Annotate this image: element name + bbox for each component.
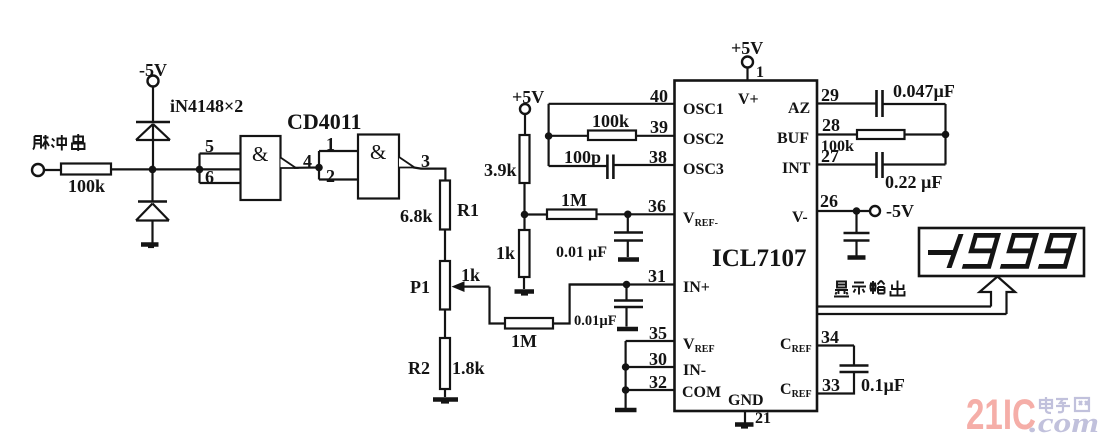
capacitor 0.01uF (pin31) [614, 285, 643, 327]
seven-seg digit 9 (third) [1038, 233, 1077, 269]
wire 100k to right rail [905, 133, 946, 135]
resistor 100k (osc) [588, 131, 636, 141]
svg-text:4: 4 [303, 151, 312, 171]
svg-text:5: 5 [205, 136, 214, 156]
resistor 100k (input) [61, 164, 111, 175]
svg-text:34: 34 [821, 327, 839, 347]
wire 100k to pin 39 OSC2 [636, 135, 675, 137]
svg-text:28: 28 [822, 115, 840, 135]
svg-text:29: 29 [821, 85, 839, 105]
wire 0.047uF to right rail [883, 103, 946, 105]
svg-text:OSC1: OSC1 [683, 101, 724, 118]
svg-text:1: 1 [326, 134, 335, 154]
wire resistor to gate input node [111, 168, 241, 170]
capacitor 0.01uF (pin36) [614, 214, 643, 257]
resistor R2 1.8k [440, 338, 450, 389]
display module frame [919, 228, 1084, 276]
svg-text:BUF: BUF [777, 130, 809, 147]
wire pin 29 AZ [817, 102, 876, 104]
ground below 0.01uF (pin31) [617, 327, 638, 332]
display output bus wire (lower) [817, 313, 1007, 315]
svg-text:0.22 µF: 0.22 µF [885, 172, 942, 192]
wire pin 1 [746, 68, 748, 81]
svg-text:V+: V+ [738, 91, 759, 108]
wire P1 to R2 [444, 310, 446, 339]
right rail vertical wire [944, 104, 946, 165]
svg-text:V-: V- [792, 209, 808, 226]
wire pin 32 [626, 389, 675, 391]
wire pin 26 V- [817, 210, 870, 212]
input terminal [32, 164, 44, 176]
svg-text:&: & [252, 142, 268, 166]
svg-text:1M: 1M [561, 190, 587, 210]
svg-text:ICL7107: ICL7107 [712, 245, 806, 272]
svg-text:0.1µF: 0.1µF [861, 375, 905, 395]
pin 21 wire [744, 411, 746, 423]
P1 wiper arrow [452, 281, 490, 292]
wire R2 to ground [444, 389, 446, 397]
junction pin30 [622, 363, 630, 371]
ground below pin 21 [735, 425, 754, 428]
svg-text:32: 32 [649, 372, 667, 392]
resistor 3.9k [520, 135, 530, 183]
ground below 0.01uF (pin36) [618, 257, 639, 262]
nand gate U1A (CD4011) [241, 136, 281, 200]
junction pin31/cap [623, 281, 631, 289]
diode D2 (1N4148) lower [136, 169, 169, 242]
wire node to 1k [523, 215, 525, 231]
svg-text:OSC2: OSC2 [683, 131, 724, 148]
wire 34 to 33 loop [817, 346, 854, 394]
svg-text:100k: 100k [68, 176, 105, 196]
display output bus wire (upper) [817, 305, 991, 307]
bracket wire pins 35/30/32 [624, 341, 626, 408]
svg-text:27: 27 [821, 146, 839, 166]
hollow arrow to display [980, 277, 1016, 315]
svg-text:21IC: 21IC [966, 391, 1036, 439]
resistor 100k (right) [857, 130, 905, 139]
U1A output inverter wedge [281, 158, 297, 169]
svg-text:0.01µF: 0.01µF [574, 313, 617, 329]
svg-text:P1: P1 [410, 277, 430, 297]
svg-text:.com: .com [1029, 407, 1099, 439]
svg-text:35: 35 [649, 323, 667, 343]
wire 1M to pin 31 line [553, 285, 627, 324]
junction right rail [942, 131, 950, 139]
svg-text:3.9k: 3.9k [484, 160, 517, 180]
wire U1B output to R1 [413, 167, 445, 180]
wire 1k to ground [523, 277, 525, 289]
ground below pin32 bracket [615, 408, 637, 413]
seven-seg minus sign [928, 250, 953, 255]
svg-text:1k: 1k [496, 243, 515, 263]
wire input to resistor [44, 169, 61, 171]
svg-text:+5V: +5V [731, 38, 763, 58]
-5V terminal (right) [870, 206, 880, 216]
capacitor 0.047uF [877, 90, 883, 117]
junction pin36/cap [624, 211, 632, 219]
svg-text:INT: INT [782, 160, 811, 177]
svg-text:2: 2 [326, 166, 335, 186]
svg-text:IN+: IN+ [683, 279, 710, 296]
svg-text:OSC3: OSC3 [683, 161, 724, 178]
potentiometer P1 body [440, 261, 450, 310]
wire wiper to 1M [490, 287, 506, 324]
svg-text:iN4148×2: iN4148×2 [170, 96, 243, 116]
oscillator net vertical wire [547, 104, 549, 166]
label 显示输出 (display output) [834, 281, 905, 297]
svg-text:3: 3 [421, 151, 430, 171]
node 4 junction [315, 164, 323, 172]
svg-text:100k: 100k [592, 111, 629, 131]
ground below V- cap [848, 255, 866, 260]
seven-seg digit 1 [947, 234, 964, 268]
svg-text:GND: GND [728, 392, 764, 409]
wire R1 to P1 [444, 230, 446, 262]
wire pin 31 IN+ [570, 283, 675, 285]
wire pin 30 [626, 366, 675, 368]
seven-seg digit 9 (first) [962, 233, 1001, 269]
svg-text:IN-: IN- [683, 362, 706, 379]
svg-text:R1: R1 [457, 200, 479, 220]
svg-text:26: 26 [820, 191, 838, 211]
resistor 1M (upper) [547, 210, 597, 220]
resistor 1k (mid) [519, 230, 530, 277]
wire to 100k [549, 135, 588, 137]
svg-text:36: 36 [648, 196, 666, 216]
wire -5V to diode D1 [152, 87, 154, 122]
junction on input wire [149, 166, 157, 174]
nand gate U1B (CD4011) [358, 135, 399, 199]
ground below D2 [141, 245, 159, 248]
junction pin32 [622, 386, 630, 394]
svg-text:1.8k: 1.8k [452, 358, 485, 378]
svg-text:38: 38 [649, 147, 667, 167]
svg-text:COM: COM [682, 384, 721, 401]
wire bracket to gate U1B inputs [319, 151, 358, 180]
wire U1A output to node 4 [294, 166, 319, 169]
wire 0.22uF to right rail [883, 163, 946, 165]
resistor 1M (lower) [505, 318, 553, 329]
capacitor (V- bypass) [844, 211, 870, 256]
wire 1M to pin 36 [597, 213, 675, 215]
svg-text:39: 39 [650, 117, 668, 137]
svg-text:33: 33 [822, 375, 840, 395]
wire pin 34 CREF [817, 344, 854, 346]
wire 3.9k to node [523, 183, 525, 215]
label 脉冲串 (pulse train) [33, 134, 85, 151]
wire node to 1M (upper) [525, 213, 548, 215]
wire to 100p [549, 165, 607, 167]
node at 3.9k/1k/1M junction [521, 211, 529, 219]
svg-text:1M: 1M [511, 331, 537, 351]
wire 100p to pin 38 OSC3 [613, 164, 674, 166]
svg-text:40: 40 [650, 86, 668, 106]
svg-text:0.047µF: 0.047µF [893, 81, 955, 101]
svg-text:31: 31 [648, 266, 666, 286]
capacitor 100p [607, 155, 613, 180]
ground below 1k [515, 292, 535, 295]
wire pin 40 OSC1 [549, 103, 675, 105]
svg-text:0.01 µF: 0.01 µF [556, 244, 607, 261]
svg-text:21: 21 [755, 410, 771, 427]
seven-seg digit 9 (second) [1000, 233, 1039, 269]
wire pin 27 INT [817, 163, 876, 165]
wire +5V to 3.9k [524, 114, 526, 135]
svg-text:1: 1 [756, 64, 764, 81]
resistor R1 6.8k [440, 181, 450, 230]
svg-text:-5V: -5V [886, 201, 914, 221]
svg-text:&: & [370, 140, 386, 164]
svg-text:100p: 100p [564, 147, 601, 167]
wire pin 28 BUF [817, 133, 857, 135]
junction at 100k left [545, 132, 553, 140]
svg-text:6: 6 [205, 167, 214, 187]
junction V- cap [853, 207, 861, 215]
op-amp/ADC U2 ICL7107 body [675, 81, 818, 412]
svg-text:CD4011: CD4011 [287, 109, 362, 134]
wire bracket to gate U1A inputs [200, 154, 241, 184]
capacitor 0.1uF [840, 366, 869, 373]
wire pin 35 [626, 340, 675, 342]
svg-text:6.8k: 6.8k [400, 206, 433, 226]
svg-text:AZ: AZ [788, 100, 810, 117]
svg-text:30: 30 [649, 349, 667, 369]
svg-text:R2: R2 [408, 358, 430, 378]
watermark 电子网 [1040, 397, 1089, 413]
junction at gate bracket [196, 166, 204, 174]
U1B output inverter wedge [399, 157, 415, 168]
diode D1 (1N4148) upper [136, 122, 170, 169]
ground below R2 [433, 400, 458, 403]
svg-text:1k: 1k [461, 265, 480, 285]
capacitor 0.22uF [877, 152, 883, 178]
